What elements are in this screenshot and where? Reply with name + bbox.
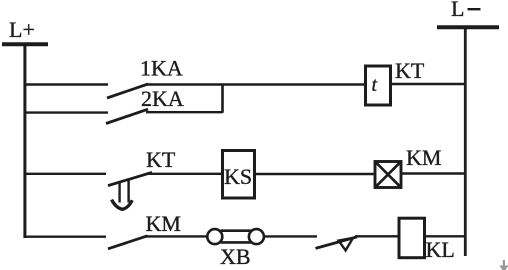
svg-text:KL: KL bbox=[426, 237, 455, 262]
svg-text:KT: KT bbox=[395, 58, 425, 83]
svg-text:L+: L+ bbox=[9, 17, 35, 42]
svg-text:KM: KM bbox=[146, 211, 181, 236]
svg-text:KS: KS bbox=[224, 164, 252, 189]
svg-text:t: t bbox=[372, 74, 378, 96]
svg-text:1KA: 1KA bbox=[140, 56, 183, 81]
svg-text:KT: KT bbox=[146, 147, 176, 172]
svg-text:2KA: 2KA bbox=[141, 86, 184, 111]
svg-text:XB: XB bbox=[220, 244, 251, 269]
svg-text:L: L bbox=[451, 0, 464, 21]
svg-text:KM: KM bbox=[406, 145, 441, 170]
